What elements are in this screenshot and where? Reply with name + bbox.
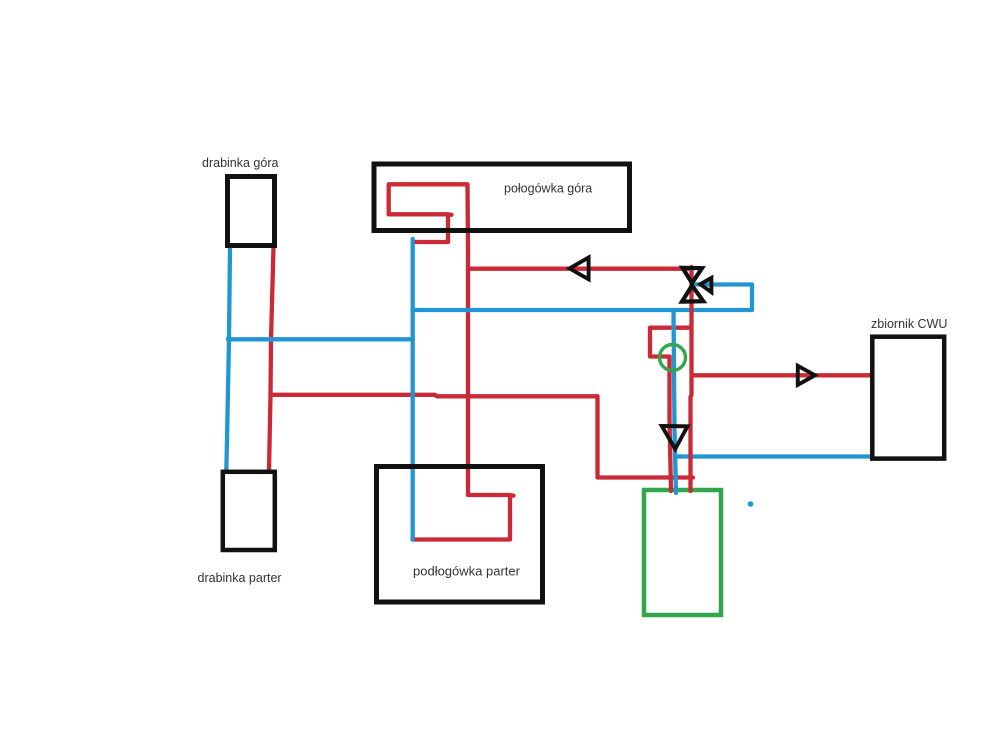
svg-text:podłogówka parter: podłogówka parter <box>413 564 521 579</box>
svg-text:drabinka góra: drabinka góra <box>202 156 278 170</box>
svg-text:drabinka parter: drabinka parter <box>198 571 282 585</box>
svg-text:zbiornik CWU: zbiornik CWU <box>871 317 947 331</box>
svg-text:połogówka góra: połogówka góra <box>504 182 592 196</box>
